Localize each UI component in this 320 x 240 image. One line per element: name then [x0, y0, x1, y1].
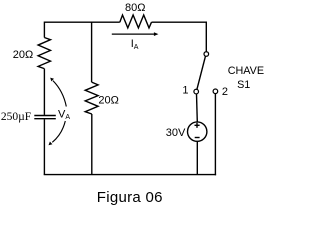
svg-text:1: 1 — [182, 85, 188, 97]
wire bottom — [44, 174, 216, 176]
svg-text:20Ω: 20Ω — [13, 49, 33, 61]
voltage source 30V circle — [188, 122, 207, 141]
svg-text:80Ω: 80Ω — [125, 2, 145, 14]
svg-text:30V: 30V — [166, 127, 186, 139]
wire middle vertical bottom — [91, 114, 93, 175]
wire left vertical bottom — [43, 119, 45, 174]
current arrow IA — [112, 32, 159, 36]
wire terminal1 to source — [196, 94, 199, 122]
svg-text:Figura 06: Figura 06 — [97, 189, 163, 206]
wire left vertical middle — [43, 69, 45, 115]
switch S1 terminal 2 circle — [213, 89, 218, 94]
wire top-right segment — [152, 22, 207, 52]
voltage source polarity marks — [195, 123, 200, 138]
switch S1 arm — [197, 56, 206, 89]
capacitor 250µF top plate — [34, 115, 56, 117]
svg-text:CHAVE: CHAVE — [228, 65, 264, 77]
wire left vertical top — [43, 22, 45, 38]
wire source to bottom — [196, 141, 198, 174]
svg-text:2: 2 — [222, 86, 228, 98]
resistor 20Ω (middle) — [85, 82, 98, 114]
capacitor 250µF bottom plate — [34, 118, 56, 120]
resistor 80Ω (top) — [120, 15, 152, 28]
svg-text:VA: VA — [58, 108, 70, 121]
svg-text:250µF: 250µF — [1, 111, 31, 123]
switch S1 terminal 1 circle — [194, 89, 199, 94]
svg-text:IA: IA — [131, 38, 139, 51]
voltage annotation VA arcs — [52, 81, 66, 143]
wire middle vertical top — [91, 22, 93, 83]
resistor 20Ω (left) — [38, 38, 50, 69]
svg-text:20Ω: 20Ω — [98, 94, 118, 106]
switch S1 common terminal circle — [204, 52, 209, 57]
svg-text:S1: S1 — [237, 79, 250, 91]
wire top-left segment — [44, 21, 119, 23]
wire terminal2 to bottom — [214, 94, 216, 176]
